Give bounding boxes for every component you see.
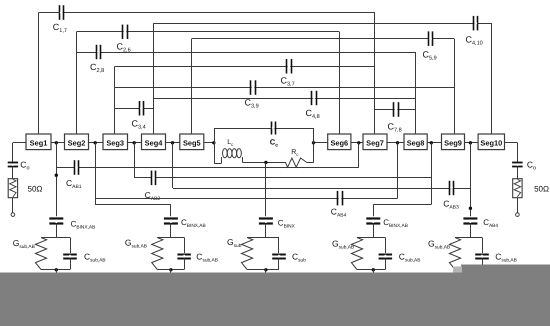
svg-text:Seg5: Seg5 [183,138,201,147]
svg-text:Seg1: Seg1 [30,138,48,147]
svg-text:Seg6: Seg6 [330,138,348,147]
svg-text:50Ω: 50Ω [28,185,43,194]
svg-text:Seg7: Seg7 [366,138,384,147]
svg-text:Seg8: Seg8 [407,138,425,147]
svg-text:Seg4: Seg4 [145,138,164,147]
svg-text:Seg2: Seg2 [68,138,86,147]
svg-text:Seg10: Seg10 [480,138,502,147]
svg-text:50Ω: 50Ω [534,185,549,194]
svg-text:Seg9: Seg9 [444,138,462,147]
svg-text:Seg3: Seg3 [106,138,124,147]
